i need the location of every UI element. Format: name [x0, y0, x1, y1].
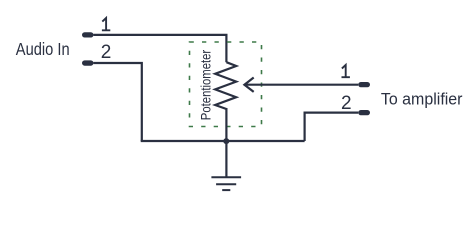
wire: junction to ground — [225, 141, 227, 177]
wiper arrowhead — [244, 78, 253, 92]
wiper arrow line to To-amplifier pin1 — [244, 84, 358, 86]
potentiometer resistor zigzag R1 — [215, 62, 236, 109]
svg-text:2: 2 — [101, 42, 112, 63]
wire: Audio In pin2 down to bottom rail — [94, 63, 142, 141]
terminal pill 1 (Audio In) — [82, 32, 94, 37]
pin label 1 (Audio In) — [102, 18, 110, 30]
terminal pill 2 (Audio In) — [82, 60, 94, 65]
ground symbol — [211, 177, 241, 190]
junction node dot — [223, 138, 229, 144]
svg-text:2: 2 — [341, 93, 352, 114]
wire: To amplifier pin2 down to bottom rail — [305, 113, 359, 141]
terminal pill 2 (To amplifier) — [358, 110, 370, 115]
svg-text:To amplifier: To amplifier — [381, 89, 463, 108]
pin label 1 (To amplifier) — [342, 65, 350, 77]
wire: Audio In pin1 to potentiometer top — [94, 35, 227, 62]
dashed enclosure box — [190, 42, 262, 127]
wire: potentiometer bottom lead to rail — [225, 108, 227, 141]
wire: bottom rail — [141, 140, 305, 142]
svg-text:Potentiometer: Potentiometer — [197, 50, 213, 121]
svg-text:Audio In: Audio In — [16, 39, 70, 59]
terminal pill 1 (To amplifier) — [358, 82, 370, 87]
